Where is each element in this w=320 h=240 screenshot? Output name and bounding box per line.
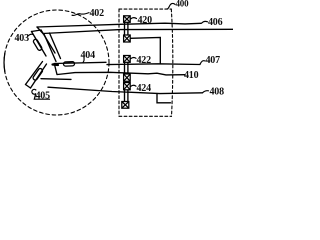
dashed box 400 boundary <box>119 8 171 10</box>
leader 422 tilde <box>131 58 137 59</box>
crimp square S4 unit 422 <box>124 74 131 81</box>
wire wF stub <box>41 78 71 81</box>
leader 402 <box>72 13 89 16</box>
wire bend diagonal D2 <box>50 33 61 59</box>
svg-text:406: 406 <box>208 17 223 28</box>
ferrule on 403 stub <box>33 39 43 51</box>
svg-text:405: 405 <box>36 91 51 102</box>
crimp square S6 unit 424 <box>122 102 129 109</box>
ferrule on 405 wire <box>32 68 43 81</box>
wire LA top conductor to 406 <box>37 23 201 27</box>
wire 403 stub edge E1 <box>32 32 47 57</box>
wire wD middle band bottom edge to 410 <box>58 72 186 75</box>
wire bend diagonal D1 <box>44 34 56 62</box>
wire LB second top conductor to right edge <box>43 29 233 33</box>
crimp square S1 unit 420 <box>124 16 131 22</box>
wire end cap top band <box>37 27 43 34</box>
crimp square S2 unit 420 <box>124 35 131 42</box>
wire 403 stub end cap <box>32 30 42 32</box>
junction blob at vertex <box>53 63 59 66</box>
leader 403 <box>28 34 33 36</box>
svg-text:402: 402 <box>90 8 105 19</box>
leader 420 tilde <box>131 18 137 19</box>
svg-text:410: 410 <box>184 70 199 81</box>
wire wE bottom conductor 408 <box>48 87 203 93</box>
svg-text:422: 422 <box>137 55 152 66</box>
leader 407 tilde <box>200 61 205 65</box>
svg-text:408: 408 <box>210 87 225 98</box>
svg-text:420: 420 <box>138 15 153 26</box>
ferrule 404 pill <box>63 62 74 67</box>
wire bottom diagonal F1 <box>26 62 43 85</box>
crimp square S5 unit 424 <box>124 83 131 90</box>
dashed circle 402 boundary <box>4 10 109 115</box>
svg-text:404: 404 <box>81 50 96 61</box>
wire bottom diagonal end cap <box>26 85 31 89</box>
leader 405 hook and underline <box>32 89 50 99</box>
crimp square S3 unit 422 <box>124 56 131 63</box>
svg-text:403: 403 <box>15 33 30 44</box>
leader 424 tilde <box>131 85 137 86</box>
svg-text:407: 407 <box>206 55 221 66</box>
wire 407 pair top right segment <box>107 63 200 66</box>
wire middle band left cap <box>55 65 58 75</box>
vertical link pair squares 420 <box>124 22 126 35</box>
svg-text:424: 424 <box>137 83 152 94</box>
wire bottom diagonal F2 <box>31 64 47 88</box>
vertical link pair squares 424 <box>124 90 126 102</box>
wire 403 stub edge E2 <box>41 30 55 53</box>
leader 404 arrow <box>83 58 84 63</box>
solid left arc segment of circle <box>3 53 6 72</box>
leader 400 <box>167 3 175 8</box>
wire corner at 424 lower square <box>157 94 171 103</box>
svg-text:400: 400 <box>176 0 190 9</box>
leader 408 tilde <box>203 91 209 93</box>
wire wC middle band top edge <box>54 62 106 63</box>
vertical link pair squares 422 <box>124 62 126 74</box>
leader 406 tilde <box>202 21 208 23</box>
wire corner from 420 lower square <box>130 38 160 64</box>
